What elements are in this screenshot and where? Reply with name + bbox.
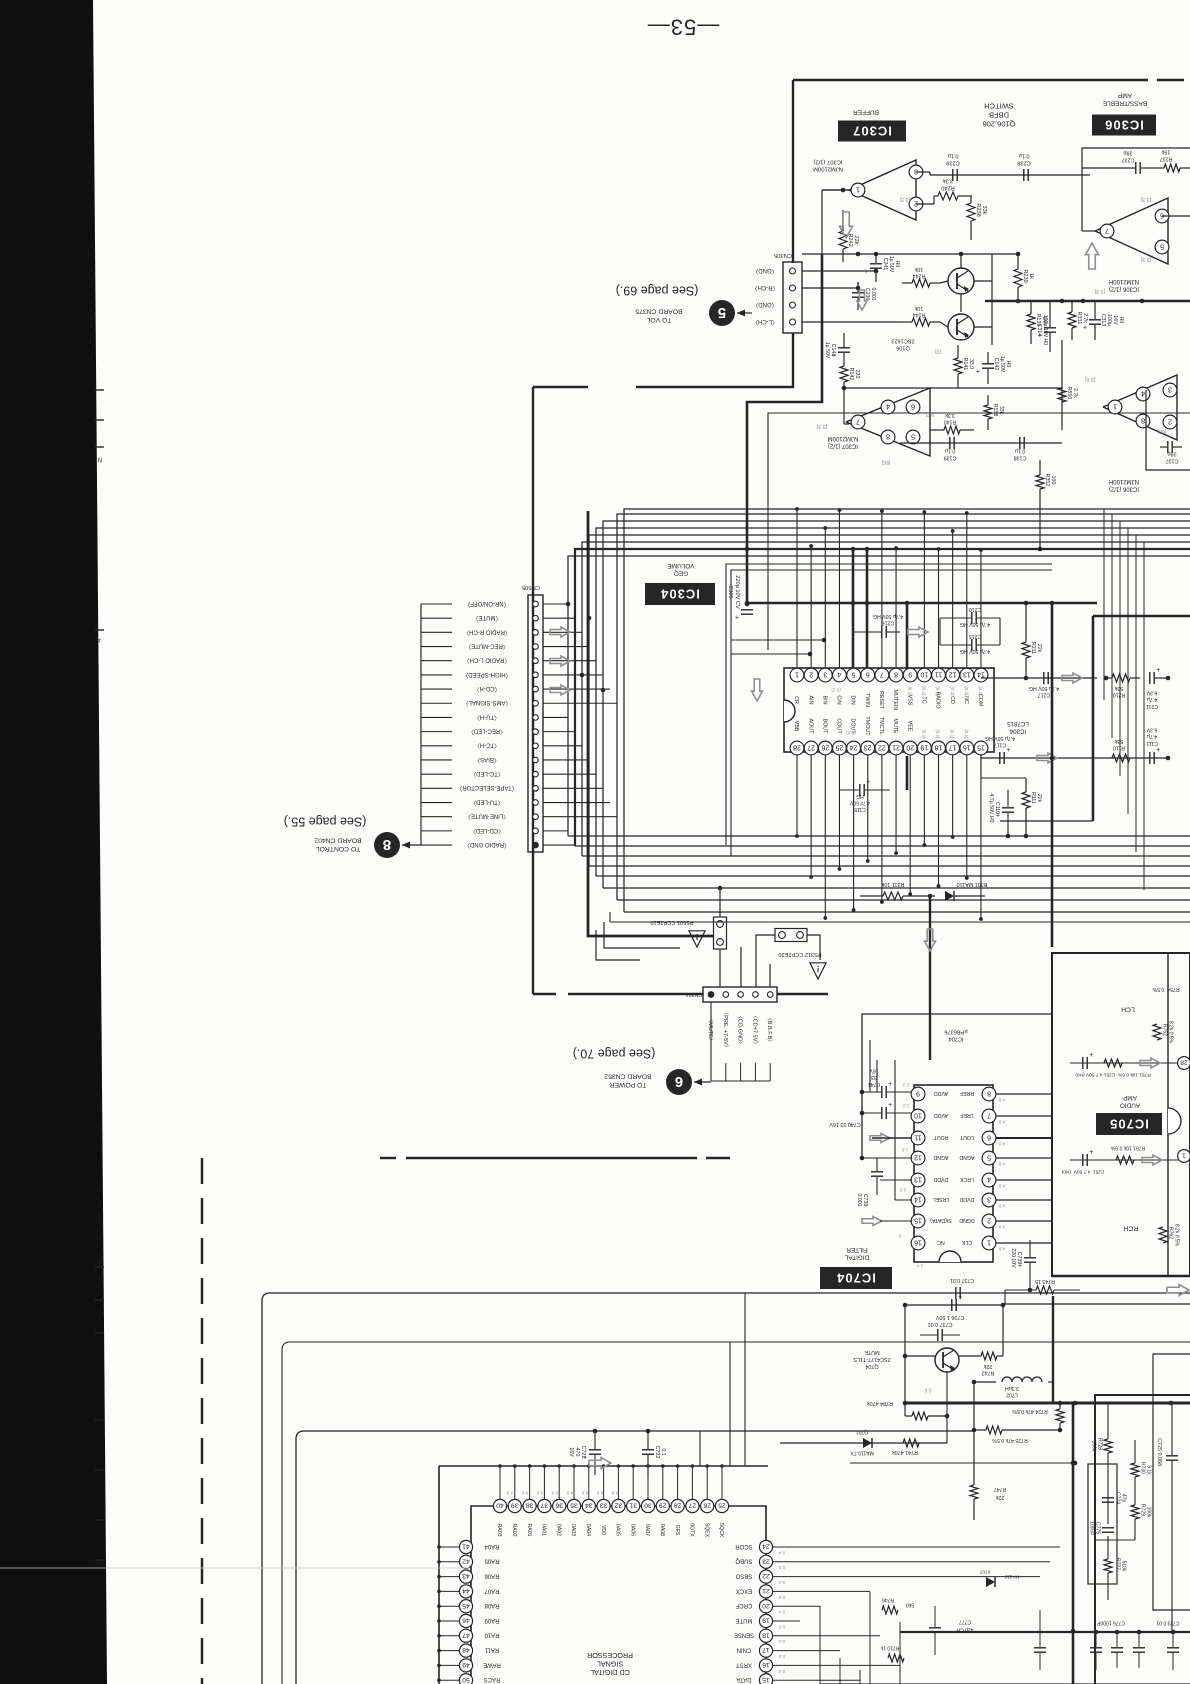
- svg-text:FILTER: FILTER: [846, 1246, 868, 1253]
- wire IC704 net risers: [876, 1060, 878, 1092]
- resistor R240 3.3k: [938, 192, 958, 200]
- svg-text:12: 12: [949, 671, 957, 678]
- svg-text:220µ 10V CV: 220µ 10V CV: [734, 575, 740, 609]
- svg-text:[0.1]: [0.1]: [964, 730, 969, 739]
- wire right drop 5: [1135, 535, 1137, 852]
- more caps bottom: [1111, 1647, 1123, 1649]
- capacitor C236 0.001: [852, 292, 864, 294]
- capacitor C741 33 16V: [881, 1086, 883, 1098]
- wire label stub REC-LED: [421, 731, 452, 733]
- wire CN505 row 10: [543, 731, 575, 733]
- svg-text:[0.1]: [0.1]: [964, 687, 969, 696]
- svg-text:22k: 22k: [853, 235, 859, 244]
- capacitor C211 4.7 6.3V: [1149, 672, 1151, 684]
- svg-text:〈MUTE〉: 〈MUTE〉: [473, 614, 502, 621]
- svg-text:26: 26: [703, 1502, 711, 1509]
- op-amp IC307 1/2 triangle: [849, 160, 916, 220]
- svg-text:35: 35: [570, 1502, 578, 1509]
- svg-text:AMP: AMP: [1123, 1094, 1137, 1101]
- svg-text:〈B.B.F.B〉: 〈B.B.F.B〉: [766, 1015, 773, 1045]
- svg-text:3: 3: [987, 1196, 991, 1203]
- svg-text:4: 4: [1141, 389, 1145, 398]
- svg-text:SIGNAL: SIGNAL: [597, 1659, 623, 1668]
- svg-text:C722: C722: [654, 1446, 660, 1459]
- diode Q707 MA110: [986, 1577, 995, 1587]
- svg-text:SI(DATA): SI(DATA): [930, 1217, 952, 1223]
- svg-text:[0]: [0]: [935, 348, 941, 354]
- svg-text:R724 47k 0.5%: R724 47k 0.5%: [1012, 1408, 1048, 1414]
- svg-text:4.9: 4.9: [998, 1203, 1005, 1208]
- svg-text:〈TU-H〉: 〈TU-H〉: [474, 713, 500, 720]
- label IC306 1/2 NJM2100H: [1109, 278, 1139, 292]
- svg-text:0.6: 0.6: [924, 1386, 931, 1392]
- svg-text:20: 20: [906, 744, 914, 751]
- gray arrows top: [840, 212, 853, 238]
- svg-text:1: 1: [1113, 402, 1117, 411]
- svg-text:BOARD CN375: BOARD CN375: [635, 307, 682, 314]
- pin 6 IC304: [861, 668, 875, 682]
- svg-text:R751 10k 0.5% C251 4.7 50V (H: R751 10k 0.5% C251 4.7 50V (H0): [1075, 1071, 1151, 1077]
- svg-text:10k: 10k: [914, 305, 923, 311]
- svg-text:SCOR: SCOR: [735, 1543, 753, 1549]
- resistor R743 15: [1036, 1286, 1054, 1294]
- svg-text:C737 0.01: C737 0.01: [950, 1277, 974, 1283]
- wire right drop 6: [1143, 542, 1145, 890]
- svg-text:43: 43: [462, 1572, 470, 1579]
- svg-text:LRCK: LRCK: [960, 1176, 974, 1182]
- svg-text:VBB: VBB: [793, 721, 799, 732]
- svg-text:0.1µ: 0.1µ: [1018, 152, 1030, 158]
- svg-text:CR: CR: [793, 696, 799, 704]
- svg-text:22k: 22k: [1036, 644, 1042, 653]
- svg-text:R237: R237: [1160, 156, 1173, 162]
- svg-text:CN304: CN304: [686, 991, 702, 997]
- wire right drop 2: [1111, 514, 1113, 738]
- pin 28 IC705: [1178, 1057, 1190, 1070]
- svg-text:SQCK: SQCK: [718, 1523, 724, 1538]
- fusible link PS501: [714, 917, 727, 949]
- pin 29 DSP: [662, 1466, 664, 1499]
- wire label stub TC-H: [421, 745, 452, 747]
- pin 7: [851, 415, 865, 429]
- svg-text:47: 47: [462, 1631, 470, 1638]
- pin CN505 TU-H: [533, 715, 539, 721]
- pin 21 IC304: [889, 741, 903, 755]
- svg-text:0.5: 0.5: [778, 1595, 785, 1600]
- svg-text:RA02: RA02: [511, 1524, 517, 1537]
- label TO POWER BOARD CN352: [604, 1072, 651, 1087]
- svg-text:33.0: 33.0: [968, 359, 974, 369]
- filter outer box: [1095, 1395, 1190, 1684]
- bottom bus wires: [900, 1631, 1190, 1633]
- svg-text:1000#: 1000#: [1088, 1521, 1094, 1535]
- svg-text:10k: 10k: [914, 266, 923, 272]
- svg-text:MUTE: MUTE: [736, 1617, 753, 1623]
- svg-text:R211: R211: [1030, 642, 1036, 654]
- svg-text:LRSEL: LRSEL: [933, 1196, 950, 1202]
- label IC704 uPB6376: [944, 1028, 967, 1041]
- wire pin 20: [773, 1605, 820, 1607]
- svg-text:4.9: 4.9: [611, 1490, 618, 1495]
- wires filter box: [1107, 1403, 1109, 1439]
- svg-text:RCH: RCH: [1124, 1225, 1139, 1232]
- svg-text:19: 19: [920, 744, 928, 751]
- pin 14 IC704: [911, 1193, 925, 1207]
- wire label stub CD-H: [421, 688, 452, 690]
- svg-text:4.9: 4.9: [596, 1490, 603, 1495]
- svg-text:〈R-CH〉: 〈R-CH〉: [752, 284, 779, 291]
- svg-text:—53—: —53—: [647, 14, 719, 39]
- svg-text:22k: 22k: [1036, 794, 1042, 803]
- svg-text:!: !: [696, 932, 699, 941]
- capacitor C723: [1167, 1647, 1179, 1649]
- wire row y758: [981, 757, 1168, 759]
- pin 17 IC304: [946, 741, 960, 755]
- svg-text:C313: C313: [1100, 314, 1106, 327]
- svg-text:C237: C237: [1122, 157, 1135, 163]
- IC704 label box: [820, 1267, 892, 1289]
- svg-text:CD: CD: [949, 696, 955, 704]
- svg-text:〈REC-LED〉: 〈REC-LED〉: [468, 728, 506, 735]
- board dash border x202 vertical: [201, 1158, 204, 1184]
- svg-text:SUBQ: SUBQ: [735, 1558, 752, 1564]
- capacitor C251 row2: [1082, 1154, 1084, 1166]
- svg-text:R743 15: R743 15: [1035, 1278, 1055, 1284]
- svg-text:4: 4: [886, 402, 890, 411]
- svg-text:NJM2100H: NJM2100H: [1109, 478, 1139, 484]
- wire pin2 riser left: [731, 653, 810, 655]
- connector CN505: [528, 595, 543, 852]
- svg-text:28: 28: [674, 1502, 682, 1509]
- svg-text:(6.2): (6.2): [831, 687, 841, 692]
- wire row 1160: [1070, 1159, 1178, 1161]
- svg-text:R210: R210: [1113, 692, 1126, 698]
- svg-text:R311 10k: R311 10k: [881, 881, 904, 887]
- svg-text:NJM2100H: NJM2100H: [1109, 278, 1139, 284]
- IC705 label box: [1096, 1113, 1162, 1135]
- svg-text:〈GND〉: 〈GND〉: [752, 267, 777, 274]
- wire row y254: [802, 253, 1018, 255]
- svg-text:〈AMS-SIGNAL〉: 〈AMS-SIGNAL〉: [462, 699, 511, 706]
- wire row y1305: [905, 1304, 1003, 1306]
- svg-text:C724: C724: [1114, 1492, 1120, 1504]
- wire label stub RADIO R-CH: [421, 631, 452, 633]
- pin CN304 B.B.F.B: [767, 992, 773, 998]
- svg-text:2: 2: [1168, 417, 1172, 426]
- wire transistor nets: [940, 281, 948, 283]
- svg-text:4.9: 4.9: [506, 1490, 513, 1495]
- svg-text:18: 18: [762, 1631, 770, 1638]
- svg-text:BASS/TREBLE: BASS/TREBLE: [1102, 100, 1147, 107]
- pin 36 DSP: [558, 1466, 560, 1499]
- wire pin15 drop: [980, 755, 982, 758]
- svg-text:NJM2100M: NJM2100M: [813, 166, 843, 172]
- pin 32 DSP: [617, 1466, 619, 1499]
- svg-text:0OTX: 0OTX: [689, 1523, 695, 1537]
- svg-text:4.7µ 50V HG: 4.7µ 50V HG: [873, 613, 903, 619]
- board dash border y994: [533, 993, 556, 995]
- pin 6 IC704: [982, 1131, 996, 1145]
- svg-text:0.1µ: 0.1µ: [1015, 448, 1026, 454]
- pin 16 DSP: [759, 1659, 772, 1672]
- svg-text:RA01: RA01: [526, 1524, 532, 1537]
- svg-text:〈BIAS〉: 〈BIAS〉: [474, 756, 500, 763]
- svg-text:2.2: 2.2: [902, 1103, 909, 1108]
- svg-text:SQEX: SQEX: [703, 1523, 709, 1538]
- wire CN304 MUTE down: [710, 1002, 712, 1081]
- label TO CONTROL BOARD CN402: [314, 836, 361, 851]
- svg-text:RA11: RA11: [484, 1647, 499, 1653]
- thick vertical x1093: [1092, 616, 1095, 821]
- wire right drop 3: [1119, 521, 1121, 776]
- diode B301 MA110: [945, 891, 954, 901]
- wire CN505 collector vertical: [420, 604, 422, 845]
- svg-text:〈RADIO L-CH〉: 〈RADIO L-CH〉: [464, 657, 511, 664]
- svg-text:2.4: 2.4: [916, 1263, 923, 1268]
- thick bus y603: [747, 602, 1097, 605]
- vertical x974: [973, 1382, 975, 1481]
- svg-text:[66]: [66]: [1157, 428, 1166, 434]
- svg-text:C139: C139: [944, 455, 957, 461]
- svg-text:9: 9: [916, 1090, 920, 1097]
- wire CN505 row 8: [543, 702, 617, 704]
- wire row y1443 diode R741: [850, 1442, 947, 1444]
- svg-text:〈CD-GND〉: 〈CD-GND〉: [737, 1013, 744, 1047]
- pin 2: [1163, 415, 1177, 429]
- warning triangle PS312: [810, 963, 826, 979]
- svg-text:C217: C217: [1038, 692, 1051, 698]
- wire right drop 1: [1103, 509, 1105, 700]
- svg-text:7: 7: [856, 417, 860, 426]
- svg-text:100k: 100k: [1145, 1507, 1151, 1518]
- transistor Q106 2SC1623: [948, 314, 974, 340]
- svg-text:2SC4177-T1LS: 2SC4177-T1LS: [853, 1356, 891, 1362]
- svg-text:R141: R141: [962, 358, 968, 371]
- svg-text:RA07: RA07: [484, 1587, 500, 1593]
- svg-text:11: 11: [935, 671, 942, 678]
- svg-text:11: 11: [914, 1134, 921, 1141]
- label DIGITAL FILTER: [844, 1246, 869, 1261]
- pin 26 IC304: [818, 741, 832, 755]
- board outline border y387: [533, 386, 588, 388]
- svg-text:[0.1]: [0.1]: [978, 687, 983, 696]
- svg-text:5: 5: [1160, 242, 1164, 251]
- wire CN505 row 13: [543, 773, 596, 775]
- pin 26 DSP: [706, 1466, 708, 1499]
- svg-text:SWITCH: SWITCH: [984, 101, 1014, 110]
- svg-text:R761 10k 0.5%: R761 10k 0.5%: [1110, 1144, 1145, 1150]
- wire row y790 stub: [981, 777, 1026, 779]
- wire CN304 risers: [740, 947, 742, 987]
- svg-text:IC307 (1/2): IC307 (1/2): [828, 443, 858, 449]
- svg-text:[3.3]: [3.3]: [1140, 256, 1151, 262]
- pin 3 IC704: [982, 1193, 996, 1207]
- resistor R751 10k: [1104, 1059, 1122, 1067]
- svg-text:C238: C238: [1017, 160, 1030, 166]
- svg-text:CIN: CIN: [836, 695, 842, 704]
- svg-text:C305: C305: [727, 585, 733, 598]
- wire CN505 row 1: [543, 603, 568, 605]
- wire row y301 thick: [985, 300, 1190, 303]
- nested round rect 3: [296, 1431, 974, 1684]
- wire op-amp output net: [822, 189, 849, 191]
- svg-text:〈CD-H〉: 〈CD-H〉: [474, 685, 501, 692]
- svg-text:+: +: [735, 613, 739, 620]
- resistor R550 2.7k: [1058, 388, 1066, 402]
- DSP body: [471, 1506, 766, 1684]
- svg-text:21: 21: [762, 1587, 770, 1594]
- pin 5 IC304: [847, 668, 861, 682]
- pin 8 IC704: [982, 1087, 996, 1101]
- wire bus loop 4: [589, 535, 1190, 866]
- wire CN505 row 3: [543, 631, 582, 633]
- wire pin3 riser left: [731, 639, 824, 641]
- svg-text:25: 25: [718, 1502, 726, 1509]
- svg-text:GFS: GFS: [674, 1525, 680, 1536]
- capacitor C115 C116 left: [859, 784, 861, 796]
- svg-text:NJM2100M: NJM2100M: [828, 435, 859, 441]
- svg-text:XRST: XRST: [736, 1661, 752, 1667]
- resistor R244 10k: [912, 279, 930, 287]
- svg-text:4.9: 4.9: [551, 1490, 558, 1495]
- svg-text:4.7µ: 4.7µ: [1147, 733, 1157, 739]
- svg-text:RA05: RA05: [484, 1558, 500, 1564]
- pin 34 DSP: [588, 1466, 590, 1499]
- pin CN304 MUTE: [708, 992, 714, 998]
- svg-text:1.6: 1.6: [901, 1147, 908, 1152]
- pin 10 IC304: [917, 668, 931, 682]
- svg-text:MUTEIN: MUTEIN: [892, 690, 898, 711]
- svg-text:28: 28: [1180, 1059, 1188, 1066]
- svg-text:0: 0: [898, 1233, 901, 1238]
- svg-text:RA03: RA03: [496, 1524, 502, 1537]
- IC306 label box: [1092, 115, 1156, 136]
- svg-text:C723 0.01: C723 0.01: [1156, 1619, 1179, 1625]
- wire row y443: [900, 442, 1062, 444]
- wire CN505 row 5: [543, 660, 596, 662]
- pin 1 IC705: [1178, 1150, 1190, 1163]
- wire CN305 rows right: [802, 270, 876, 272]
- nested round rect 1: [262, 1293, 1190, 1684]
- pin 47 DSP: [439, 1635, 459, 1637]
- svg-text:37: 37: [540, 1502, 548, 1509]
- pin CN505 CD-LED: [533, 828, 539, 834]
- capacitor C238 0.1: [1023, 169, 1025, 181]
- svg-text:17: 17: [762, 1646, 770, 1653]
- svg-text:R142: R142: [848, 368, 854, 381]
- pin 21 DSP: [759, 1585, 772, 1598]
- svg-text:0707: 0707: [979, 1568, 990, 1574]
- pin CN505 RADIO R-CH: [533, 630, 539, 636]
- svg-text:IC306: IC306: [1104, 117, 1144, 132]
- pin 31 DSP: [632, 1466, 634, 1499]
- enclosure box IC304 area outer: [726, 564, 1052, 845]
- svg-text:〈NR-ON/OFF〉: 〈NR-ON/OFF〉: [464, 600, 509, 607]
- svg-text:C117: C117: [994, 742, 1006, 748]
- pin 19 DSP: [759, 1614, 772, 1627]
- svg-text:RA10: RA10: [484, 1632, 500, 1638]
- pin 49 DSP: [439, 1664, 459, 1666]
- svg-text:C777: C777: [959, 1618, 971, 1624]
- pin CN305 GND: [790, 302, 796, 308]
- pin 10 IC704: [911, 1109, 925, 1123]
- svg-text:220 10V: 220 10V: [1010, 1248, 1016, 1268]
- svg-text:39p: 39p: [1124, 150, 1133, 156]
- svg-text:17: 17: [949, 744, 957, 751]
- svg-text:!: !: [817, 964, 820, 973]
- svg-text:RACS: RACS: [484, 1676, 501, 1682]
- pin 3: [909, 165, 923, 179]
- pin 3: [1163, 383, 1177, 397]
- pin 11 IC704: [911, 1131, 925, 1145]
- label TO VOL BOARD CN375: [635, 307, 682, 322]
- gray arrow row2: [1142, 1155, 1162, 1165]
- svg-text:0.001: 0.001: [856, 1194, 862, 1207]
- svg-text:IC306 (1/2): IC306 (1/2): [1109, 286, 1139, 292]
- pin 38 DSP: [529, 1466, 531, 1499]
- wire CN505 row 6: [543, 674, 603, 676]
- wire IC304 top pin risers: [796, 509, 798, 668]
- wire CN505 row 11: [543, 745, 582, 747]
- svg-text:4.7µ 50V HG: 4.7µ 50V HG: [985, 735, 1015, 741]
- svg-text:C216: C216: [882, 620, 895, 626]
- svg-text:[0.1]: [0.1]: [922, 687, 927, 696]
- capacitor C736 1 50V: [951, 1299, 953, 1311]
- scan black edge strip: [0, 0, 107, 1684]
- wire thick feed x1073: [1072, 1403, 1075, 1684]
- pin 43 DSP: [439, 1576, 459, 1578]
- svg-text:GEQ: GEQ: [674, 570, 688, 577]
- pin 3 IC304: [818, 668, 832, 682]
- pin CN505 RADIO GND: [533, 842, 539, 848]
- gray arrow bottom right IC705: [1167, 1285, 1189, 1296]
- svg-text:TWIN: TWIN: [864, 693, 870, 707]
- wire bus loop 6: [603, 521, 1190, 888]
- capacitor C775 1000P: [1102, 1527, 1114, 1529]
- svg-text:4.7µ 50V H0: 4.7µ 50V H0: [988, 794, 994, 823]
- wire pin 24: [773, 1546, 1060, 1548]
- wire emitter down: [946, 1372, 948, 1416]
- svg-text:C115: C115: [854, 806, 866, 812]
- resistor R730 9.1k: [1131, 1463, 1139, 1477]
- svg-text:220: 220: [854, 370, 860, 379]
- svg-text:C725 0.068: C725 0.068: [1156, 1438, 1162, 1466]
- capacitor C314 100u 10V: [1044, 327, 1056, 329]
- capacitor C110 4.7u 50V: [1002, 807, 1014, 809]
- svg-text:R111: R111: [1030, 792, 1036, 804]
- svg-text:PS501 CCP2E10: PS501 CCP2E10: [650, 919, 693, 925]
- pin 48 DSP: [439, 1650, 459, 1652]
- svg-text:[0.6]: [0.6]: [1084, 376, 1095, 382]
- svg-text:〈REC-MUTE〉: 〈REC-MUTE〉: [465, 642, 509, 649]
- capacitor C216 4.7u: [881, 626, 883, 638]
- wire CN505 row 2: [543, 617, 575, 619]
- svg-text:6.3V: 6.3V: [1146, 689, 1157, 695]
- pin 41 DSP: [439, 1546, 459, 1548]
- svg-text:8.2k 0.5%: 8.2k 0.5%: [1173, 1224, 1179, 1247]
- wire DSP top bus: [439, 1465, 768, 1467]
- svg-text:IC705: IC705: [1109, 1116, 1149, 1131]
- svg-text:16V: 16V: [1112, 315, 1118, 325]
- capacitor C777 42p CH: [929, 1627, 941, 1629]
- svg-text:C239: C239: [946, 160, 959, 166]
- op-amp IC306 1/2 triangle: [1095, 198, 1168, 264]
- IC705 bottom thick edge: [1052, 1275, 1190, 1278]
- svg-text:22k: 22k: [995, 1494, 1004, 1500]
- svg-text:CRCF: CRCF: [735, 1602, 752, 1608]
- pin CN505 MUTE: [533, 615, 539, 621]
- svg-text:30: 30: [644, 1502, 652, 1509]
